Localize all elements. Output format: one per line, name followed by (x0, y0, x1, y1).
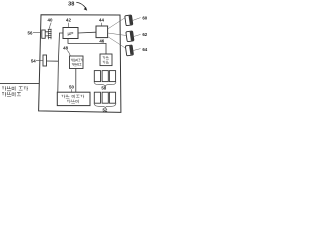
component 54 (box on left edge) (43, 55, 47, 66)
leader 50 (70, 89, 72, 92)
flexible component 64 (125, 45, 133, 56)
svg-text:46: 46 (99, 38, 104, 43)
brace 58 (94, 82, 116, 86)
box 44 (96, 26, 108, 38)
svg-text:64: 64 (142, 47, 147, 52)
svg-text:50: 50 (69, 85, 74, 90)
component 56 (box on left edge) (42, 30, 45, 38)
connector row 52 (94, 92, 100, 103)
crystal/striped component 40 (48, 27, 52, 40)
svg-text:52: 52 (102, 108, 107, 113)
wire 42-44 (78, 31, 96, 34)
caption line2 (korean) (2, 92, 21, 97)
device outline 38 (39, 15, 121, 113)
leader 60 (132, 18, 140, 21)
fan line 44 to 60 (108, 18, 126, 30)
box 50 text line2 (korean) (67, 100, 78, 104)
leader 40 (50, 23, 51, 27)
box 48 (70, 56, 84, 69)
flexible component 62 (126, 31, 134, 42)
svg-text:58: 58 (101, 86, 106, 91)
brace 52 (94, 104, 116, 108)
leader 62 (133, 34, 140, 36)
caption line1 (korean) (2, 86, 28, 91)
box 50 text line1 (korean) (62, 95, 85, 99)
touch screen controller box 50 (57, 92, 90, 105)
microprocessor box 42 (63, 28, 78, 39)
svg-text:42: 42 (66, 18, 71, 23)
svg-text:54: 54 (31, 58, 36, 63)
fan line 44 to 64 (108, 37, 126, 49)
fan line 44 to 62 (108, 33, 127, 36)
wire 54 to junction (47, 60, 59, 62)
svg-text:40: 40 (48, 18, 53, 23)
wire 42 left rail down to 50 (58, 33, 63, 92)
leader 42 (67, 23, 69, 28)
svg-text:56: 56 (28, 31, 33, 36)
box 46 (100, 54, 112, 66)
svg-text:62: 62 (142, 32, 147, 37)
prongs of 56 (45, 32, 48, 36)
flexible component 60 (125, 15, 133, 26)
box 46 text (tiny korean) (103, 56, 109, 64)
svg-text:60: 60 (142, 15, 147, 20)
leader 54 (36, 60, 43, 62)
arrow leader 38 (76, 2, 85, 7)
svg-text:48: 48 (63, 46, 68, 51)
external wire to flexible component (0, 82, 39, 84)
connector row 58 (94, 71, 100, 82)
wire 42 to 46 (68, 39, 106, 55)
box 48 text (tiny korean) (71, 59, 83, 66)
leader 56 (33, 32, 41, 34)
wire 48 to 50 (75, 69, 77, 93)
svg-text:44: 44 (99, 18, 104, 23)
leader 64 (133, 49, 141, 51)
svg-text:µP: µP (68, 31, 74, 37)
leader 44 (100, 23, 102, 26)
svg-text:38: 38 (68, 2, 74, 8)
leader 48 (67, 50, 70, 55)
